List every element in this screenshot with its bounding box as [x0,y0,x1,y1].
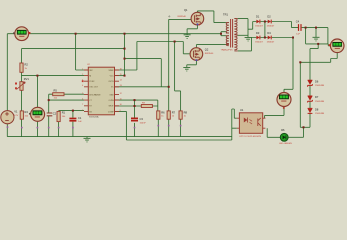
wire stack to opto collector [300,113,310,137]
svg-text:C4: C4 [296,19,300,23]
svg-text:R7: R7 [172,110,176,114]
svg-text:R1: R1 [62,111,66,115]
pin end markers purple [7,125,182,129]
capacitor C1 polarized [69,116,82,123]
svg-text:9: 9 [120,110,121,112]
capacitor C4 [296,19,301,35]
svg-text:1uF: 1uF [296,33,300,35]
svg-text:13: 13 [120,85,122,87]
wire NET1 gate Q1 and R7 [115,19,192,111]
resistor R1 [57,111,66,122]
svg-text:Q2: Q2 [205,48,209,52]
ground Q2 [183,67,190,71]
svg-text:1N5349B: 1N5349B [315,113,325,115]
wire D4 out to M4 [272,38,293,93]
resistor R9 horizontal [141,103,152,108]
wire C4 out rail [302,27,328,29]
resistor R5 horizontal [53,89,64,100]
svg-text:C1: C1 [78,116,82,120]
ground secondary tap [245,37,252,41]
voltmeter M4 [277,93,291,109]
wire bottom bus [7,137,232,140]
svg-text:12V: 12V [14,115,18,117]
svg-text:1N4007: 1N4007 [255,42,263,44]
wire R1 C1 to IC pin8 [59,111,84,137]
svg-text:R8: R8 [184,110,188,114]
svg-text:1N4007: 1N4007 [255,26,263,28]
svg-text:D2: D2 [267,15,271,19]
wire bridge middles [260,22,267,38]
wire opto emitter to LED [267,128,280,137]
svg-text:RV1: RV1 [24,77,30,81]
zener diode D7 [308,95,325,103]
LED D6 green [279,128,292,145]
wire secondary tap top [238,19,257,38]
resistor R6 [157,110,165,119]
diode D1 [255,15,263,28]
wire to IC pin6 [49,99,84,101]
resistor R2 [20,63,28,73]
svg-text:TR1: TR1 [223,13,228,17]
wire IC ground pin to bus [115,111,127,140]
wire VCC jog to pin15 [115,75,125,77]
ground bottom bus [84,137,91,142]
svg-text:V1: V1 [14,110,18,114]
svg-text:R6: R6 [161,110,165,114]
svg-text:U1: U1 [240,108,244,112]
svg-text:15: 15 [120,74,122,76]
wire Q1 source to ground [187,24,197,35]
ground Q1 [184,35,191,39]
wire R5 leads and C2 riser [49,94,84,136]
svg-text:Q1: Q1 [184,8,188,12]
wire R9 left lead [115,105,158,107]
svg-text:7: 7 [82,104,83,106]
wire ground stub right [315,28,317,38]
wire Q2 drain to transformer [196,45,226,49]
svg-text:SHUT: SHUT [108,106,114,108]
svg-text:VCC: VCC [110,76,115,78]
wire NET2 gate Q2 and R8 [115,42,191,111]
wire center tap fork [221,32,226,36]
svg-text:D6: D6 [281,128,285,132]
svg-text:D3: D3 [256,31,260,35]
svg-text:D6: D6 [315,79,319,83]
resistor R7 [167,110,175,119]
svg-text:1N5349B: 1N5349B [315,85,325,87]
wire M3 return column [299,62,301,127]
svg-text:C3: C3 [140,117,144,121]
svg-text:16: 16 [120,68,122,70]
svg-text:C2: C2 [53,112,57,116]
capacitor C2 [47,112,57,116]
svg-text:12: 12 [120,93,122,95]
wire Q1 drain to transformer [197,11,226,23]
transistor Q1 MOSFET [168,8,204,26]
svg-text:D4: D4 [267,31,271,35]
svg-text:8: 8 [82,110,83,112]
voltmeter M2 [29,107,45,121]
svg-text:11: 11 [120,99,122,101]
diode D4 [267,31,275,44]
svg-text:R2: R2 [25,63,29,67]
svg-text:COMP: COMP [108,111,114,113]
wire zener stack joins [309,85,311,108]
resistor R8 [179,110,187,119]
svg-text:GND: GND [109,94,114,96]
svg-text:1nF: 1nF [78,121,82,123]
capacitor C3 polarized [131,117,146,124]
svg-text:14: 14 [120,80,122,82]
svg-text:2: 2 [82,74,83,76]
svg-text:D8: D8 [315,108,319,112]
svg-text:1N4007: 1N4007 [267,42,275,44]
wire rail drop x=124.8 [124,34,126,76]
wire M2 riser [37,76,39,137]
transistor Q2 MOSFET [190,48,214,61]
ammeter M1 [13,27,30,41]
wire left column [7,34,15,111]
svg-text:5: 5 [82,93,83,95]
svg-text:OUTB: OUTB [108,81,114,83]
svg-text:1: 1 [82,68,83,70]
ammeter M3 [329,39,344,53]
wire LED right [288,136,304,138]
wire B horizontal [22,48,125,50]
svg-text:R5: R5 [54,89,58,93]
wire R6 R7 R8 bottoms [158,119,180,136]
svg-text:DISCHARGE: DISCHARGE [89,93,101,96]
svg-text:10: 10 [120,104,122,106]
svg-text:OSC OUT: OSC OUT [89,87,98,89]
diode D2 [267,15,275,28]
wire to M3 [306,28,331,81]
svg-text:IRF9540: IRF9540 [205,53,214,55]
wire Q2 source to ground [187,60,197,68]
svg-text:IRF9540: IRF9540 [178,16,187,18]
wire top rail A [29,33,221,35]
svg-text:OPTOCOUPLER-NPN: OPTOCOUPLER-NPN [239,136,262,138]
wire M3 bottom loop [300,53,337,63]
svg-text:D1: D1 [256,15,260,19]
IC U2 PWM controller [82,64,122,118]
svg-text:VREF: VREF [109,70,115,72]
potentiometer RV1 [15,77,29,90]
wire RV1 tap to IC pin2 [22,75,85,77]
wire opto left pins [232,109,237,140]
svg-text:D7: D7 [315,95,319,99]
wire C3 bottom [134,123,136,137]
ground C4 rail [313,37,320,41]
svg-text:1N4007: 1N4007 [267,26,275,28]
svg-text:100nF: 100nF [140,122,147,124]
svg-text:6: 6 [82,99,83,101]
zener diode D8 [308,108,325,116]
optocoupler U1 [237,108,266,138]
svg-text:4: 4 [82,85,83,87]
svg-text:1N5349B: 1N5349B [315,101,325,103]
battery V1 [1,110,19,124]
svg-text:LED-GREEN: LED-GREEN [279,143,292,145]
wire IC to R6 C3 [115,100,158,118]
svg-text:SG3525A: SG3525A [89,116,99,119]
resistor R4 [20,110,29,119]
wire V1 bottom [6,124,8,137]
diode D3 [255,31,263,44]
wire riser to IC pin1 [76,34,84,70]
wire R2 RV1 R4 column [21,49,23,137]
svg-text:TRAN-2P3S: TRAN-2P3S [221,49,234,52]
zener diode D6 [308,79,325,87]
wire S1 and riser [125,59,162,87]
wire M4 bottom [265,107,284,119]
wire secondary tap bottom [238,38,257,51]
transformer TR1 [221,13,238,52]
svg-text:SYNC: SYNC [89,81,95,83]
wire D2 out to C4 [272,22,299,28]
svg-text:R4: R4 [25,110,29,114]
wire secondary tap mid to ground [238,34,248,36]
svg-text:OUTA: OUTA [108,99,114,102]
